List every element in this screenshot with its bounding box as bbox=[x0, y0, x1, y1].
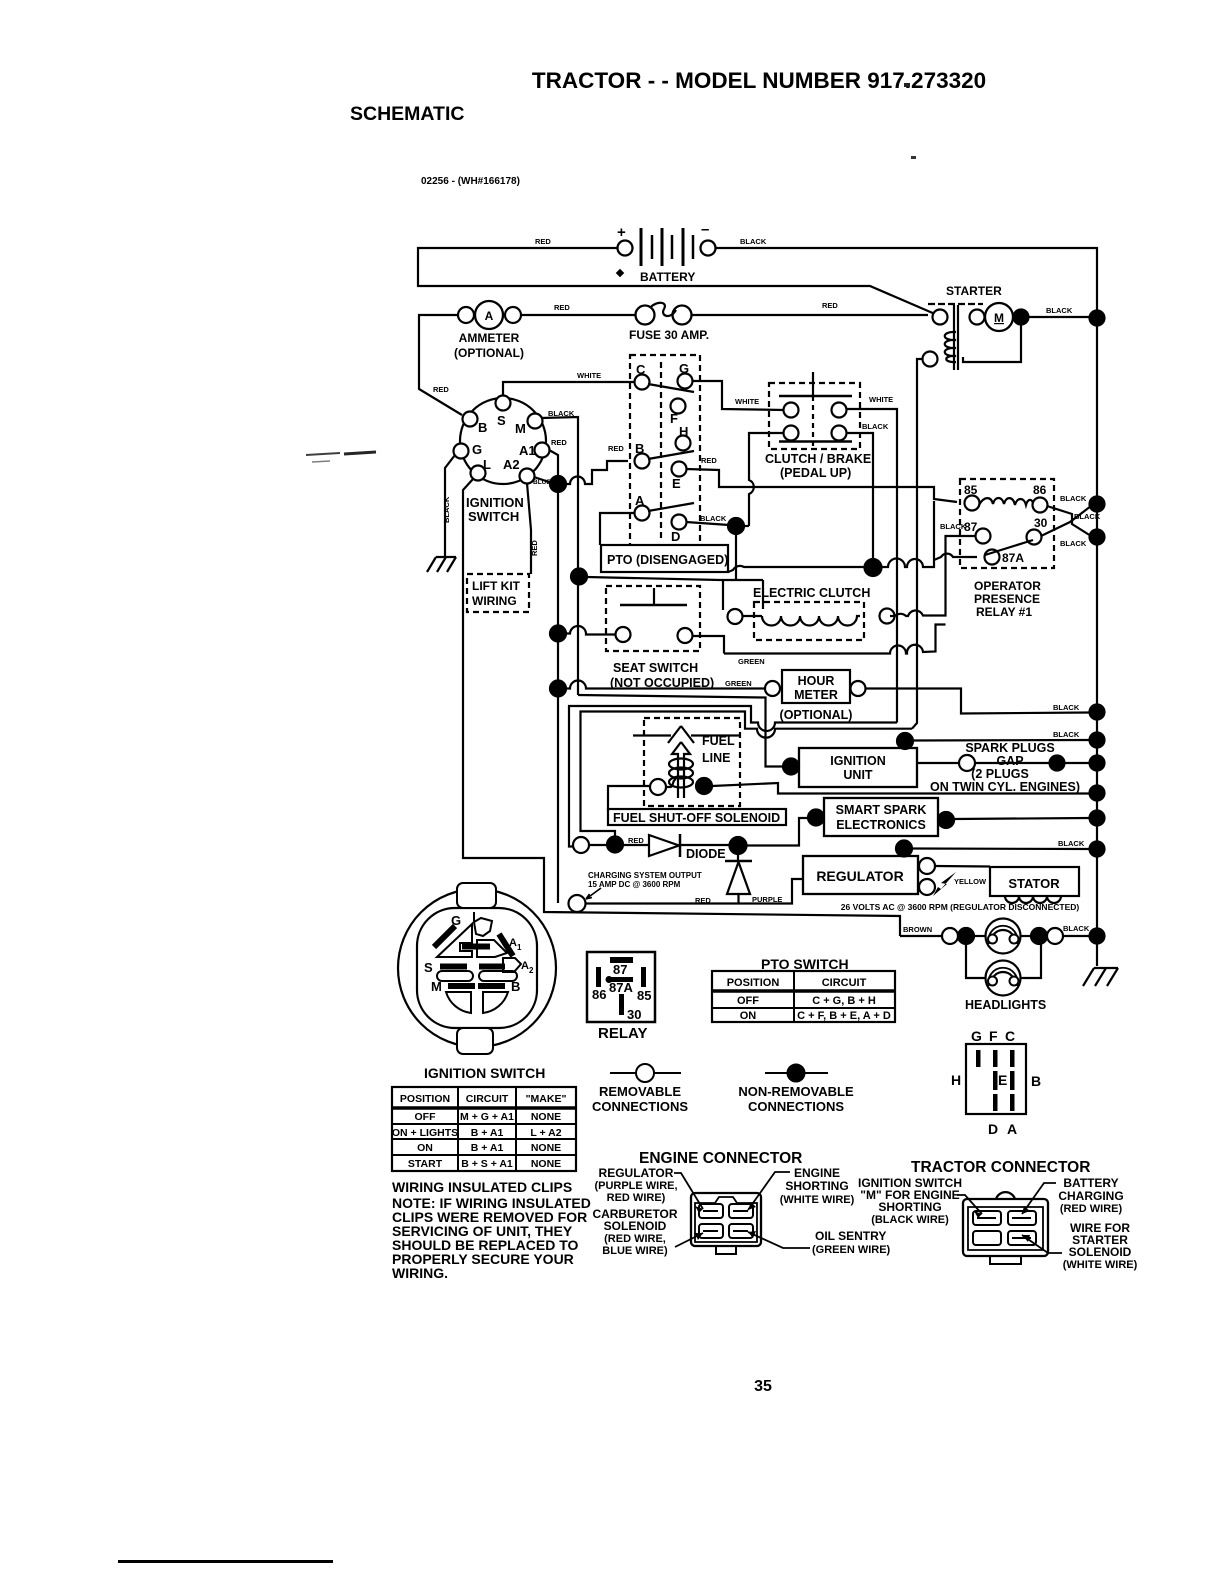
node hour meter junction bbox=[550, 681, 566, 697]
svg-text:RED: RED bbox=[551, 438, 567, 447]
wire kill circuit M to ignition unit bbox=[578, 695, 783, 767]
svg-text:YELLOW: YELLOW bbox=[954, 877, 987, 886]
svg-text:RELAY: RELAY bbox=[598, 1025, 647, 1042]
svg-text:(BLACK WIRE): (BLACK WIRE) bbox=[871, 1214, 949, 1226]
svg-text:SEAT SWITCH: SEAT SWITCH bbox=[613, 661, 698, 675]
wire ignition G to ground bbox=[445, 455, 455, 557]
svg-text:87A: 87A bbox=[1002, 551, 1024, 565]
svg-text:RED WIRE): RED WIRE) bbox=[607, 1192, 666, 1204]
wire ammeter left to ignition B (RED) bbox=[419, 315, 462, 415]
operator presence relay K1 bbox=[960, 479, 1054, 619]
tractor connector J2 bbox=[911, 1159, 1090, 1264]
svg-text:C: C bbox=[1005, 1028, 1015, 1044]
svg-text:NON-REMOVABLE: NON-REMOVABLE bbox=[738, 1084, 854, 1099]
fuel shut-off solenoid L2 bbox=[608, 778, 786, 825]
svg-text:CLUTCH / BRAKE: CLUTCH / BRAKE bbox=[765, 452, 871, 466]
svg-text:RED: RED bbox=[554, 303, 570, 312]
svg-text:BLACK: BLACK bbox=[1058, 839, 1085, 848]
wire BROWN to headlights bbox=[900, 925, 986, 944]
wire RED ignition A1 to junction bbox=[549, 438, 567, 478]
wire WHITE clutch TR to outer loop bbox=[846, 395, 897, 723]
svg-text:A1: A1 bbox=[519, 443, 536, 458]
svg-text:SHORTING: SHORTING bbox=[785, 1179, 848, 1193]
svg-text:WIRING INSULATED CLIPS: WIRING INSULATED CLIPS bbox=[392, 1179, 572, 1195]
svg-text:BLACK: BLACK bbox=[1053, 730, 1080, 739]
wire PTO E to relay 85 / junction (RED) bbox=[686, 456, 957, 502]
svg-text:A2: A2 bbox=[503, 457, 520, 472]
label ignition switch M shorting bbox=[858, 1176, 982, 1226]
svg-text:G: G bbox=[971, 1028, 982, 1044]
headlight E2 bbox=[965, 944, 1046, 1012]
wire headlight 1 to bus (BLACK) bbox=[1021, 924, 1091, 944]
svg-text:PRESENCE: PRESENCE bbox=[974, 592, 1040, 606]
svg-text:C + F, B + E, A + D: C + F, B + E, A + D bbox=[797, 1010, 891, 1022]
svg-text:IGNITION: IGNITION bbox=[830, 754, 886, 768]
svg-text:FUEL SHUT-OFF SOLENOID: FUEL SHUT-OFF SOLENOID bbox=[613, 811, 780, 825]
right bus BLACK vertical bbox=[1090, 311, 1105, 944]
svg-text:WHITE: WHITE bbox=[735, 397, 759, 406]
svg-text:30: 30 bbox=[627, 1007, 641, 1022]
svg-text:ELECTRIC CLUTCH: ELECTRIC CLUTCH bbox=[753, 586, 870, 600]
svg-text:15 AMP DC @ 3600 RPM: 15 AMP DC @ 3600 RPM bbox=[588, 880, 681, 889]
svg-text:BATTERY: BATTERY bbox=[640, 270, 695, 284]
wire PTO A around label box bbox=[600, 513, 635, 545]
svg-text:A: A bbox=[1007, 1121, 1017, 1137]
svg-text:B: B bbox=[635, 441, 644, 456]
svg-text:F: F bbox=[670, 411, 678, 426]
wire charging line (RED / PURPLE) bbox=[586, 879, 803, 905]
svg-text:M: M bbox=[994, 311, 1004, 325]
svg-text:RED: RED bbox=[695, 896, 711, 905]
label carburetor solenoid bbox=[592, 1207, 703, 1257]
ground (right bus) bbox=[1083, 936, 1118, 986]
fuel line box bbox=[633, 718, 740, 806]
svg-text:ENGINE CONNECTOR: ENGINE CONNECTOR bbox=[639, 1150, 802, 1167]
lift kit wiring box bbox=[467, 574, 529, 612]
legend non-removable connections bbox=[738, 1065, 854, 1115]
svg-text:(PEDAL UP): (PEDAL UP) bbox=[780, 466, 851, 480]
starter M1 with solenoid bbox=[923, 284, 1091, 370]
svg-text:RED: RED bbox=[530, 540, 539, 556]
wire PTO A continuation to relay (A-wire) bbox=[728, 566, 866, 572]
PTO label box bbox=[601, 545, 728, 572]
svg-text:SCHEMATIC: SCHEMATIC bbox=[350, 103, 464, 125]
headlight E1 bbox=[986, 919, 1021, 954]
TEXT_HEADERS bbox=[350, 68, 986, 1395]
svg-text:(NOT OCCUPIED): (NOT OCCUPIED) bbox=[610, 676, 714, 690]
svg-text:SMART SPARK: SMART SPARK bbox=[836, 803, 927, 817]
wire diode to smart spark bbox=[746, 818, 808, 846]
wire clutch BL down with hop (to PTO D junction) bbox=[749, 433, 784, 526]
svg-text:BLACK: BLACK bbox=[442, 496, 451, 523]
svg-text:ON: ON bbox=[417, 1142, 433, 1154]
ignition switch S1 bbox=[454, 396, 550, 525]
regulator U3 bbox=[803, 841, 935, 896]
svg-text:G: G bbox=[679, 361, 689, 376]
svg-text:FUSE 30 AMP.: FUSE 30 AMP. bbox=[629, 328, 709, 342]
svg-text:IGNITION SWITCH: IGNITION SWITCH bbox=[424, 1065, 545, 1081]
wire inner loop (starter solenoid to diode junction) bbox=[581, 712, 913, 838]
svg-text:D: D bbox=[671, 529, 680, 544]
svg-text:BLACK: BLACK bbox=[1063, 924, 1090, 933]
svg-text:METER: METER bbox=[794, 688, 838, 702]
engine connector J1 bbox=[639, 1150, 802, 1254]
node relay feed junction bbox=[865, 559, 882, 576]
svg-text:BLACK: BLACK bbox=[700, 514, 727, 523]
svg-text:AMMETER: AMMETER bbox=[459, 331, 520, 345]
BOTTOM_DIAGRAMS bbox=[392, 1150, 1138, 1281]
svg-text:PTO (DISENGAGED): PTO (DISENGAGED) bbox=[607, 553, 728, 567]
svg-text:E: E bbox=[998, 1072, 1007, 1088]
wire junction to electric clutch left bbox=[587, 577, 723, 580]
svg-text:REGULATOR: REGULATOR bbox=[816, 868, 903, 884]
wire junction to hour meter with hop (GREEN) bbox=[566, 679, 765, 689]
svg-text:CIRCUIT: CIRCUIT bbox=[822, 977, 867, 989]
wire ignition L to lights loop bbox=[463, 479, 900, 936]
node diode output bbox=[730, 837, 747, 854]
svg-text:CHARGING: CHARGING bbox=[1058, 1189, 1123, 1203]
svg-text:RED: RED bbox=[433, 385, 449, 394]
svg-text:BLACK: BLACK bbox=[940, 522, 967, 531]
svg-text:GREEN: GREEN bbox=[725, 679, 752, 688]
svg-text:2: 2 bbox=[529, 966, 534, 975]
label wire for starter solenoid bbox=[1022, 1221, 1138, 1271]
wire relay 30 to bus bbox=[1041, 506, 1101, 548]
svg-text:REGULATOR: REGULATOR bbox=[599, 1166, 674, 1180]
fuse F1 30 amp bbox=[521, 303, 709, 342]
wire fuel solenoid to spark plug line bbox=[712, 783, 1090, 794]
node junction dot 580,576 bbox=[571, 569, 587, 585]
svg-text:(RED WIRE,: (RED WIRE, bbox=[604, 1233, 666, 1245]
connector pinout GFC bbox=[951, 1028, 1041, 1137]
svg-text:DIODE: DIODE bbox=[686, 847, 726, 861]
ignition switch table bbox=[392, 1065, 576, 1171]
wire junction down to electric clutch area bbox=[723, 534, 763, 610]
svg-text:HOUR: HOUR bbox=[798, 674, 835, 688]
wire RED fuse to starter bbox=[691, 301, 928, 315]
svg-text:ENGINE: ENGINE bbox=[794, 1166, 840, 1180]
svg-text:OFF: OFF bbox=[415, 1111, 437, 1123]
svg-text:WHITE: WHITE bbox=[869, 395, 893, 404]
svg-text:BLUE WIRE): BLUE WIRE) bbox=[602, 1245, 668, 1257]
wire ignition A2 to lift kit (RED) bbox=[527, 483, 539, 574]
svg-text:30: 30 bbox=[1034, 516, 1048, 530]
spark plugs P1 bbox=[917, 741, 1090, 794]
wire outer loop (clutch white to diode feed) bbox=[569, 706, 897, 847]
svg-text:WIRING.: WIRING. bbox=[392, 1265, 448, 1281]
svg-text:BLACK: BLACK bbox=[1046, 306, 1073, 315]
svg-text:87A: 87A bbox=[609, 980, 633, 995]
svg-text:C + G, B + H: C + G, B + H bbox=[812, 995, 876, 1007]
svg-text:B + A1: B + A1 bbox=[471, 1142, 504, 1154]
svg-text:RED: RED bbox=[628, 836, 644, 845]
svg-text:C: C bbox=[636, 362, 646, 377]
wire middle vertical A1/A2 junction down bbox=[557, 492, 559, 903]
ARTIFACTS bbox=[118, 83, 916, 1563]
svg-text:M + G + A1: M + G + A1 bbox=[460, 1111, 514, 1123]
SCHEM4: component views bbox=[392, 883, 1041, 1171]
wire hour meter right to bus (BLACK) bbox=[865, 689, 1090, 714]
svg-text:POSITION: POSITION bbox=[727, 977, 780, 989]
MAIN_SCHEMATIC bbox=[418, 221, 1118, 986]
svg-text:BLACK: BLACK bbox=[1060, 539, 1087, 548]
note wiring insulated clips bbox=[392, 1179, 591, 1281]
wire RED battery positive loop bbox=[418, 237, 935, 314]
svg-text:BLACK: BLACK bbox=[740, 237, 767, 246]
label engine shorting bbox=[748, 1166, 855, 1210]
svg-text:CONNECTIONS: CONNECTIONS bbox=[592, 1099, 688, 1114]
svg-text:86: 86 bbox=[592, 987, 606, 1002]
svg-text:LINE: LINE bbox=[702, 751, 730, 765]
wire regulator top to bus (BLACK) bbox=[912, 839, 1090, 849]
svg-text:NONE: NONE bbox=[531, 1142, 561, 1154]
wire BLACK clutch BR down to relay junction bbox=[846, 422, 889, 560]
svg-text:IGNITION: IGNITION bbox=[466, 495, 524, 510]
svg-text:"MAKE": "MAKE" bbox=[526, 1093, 567, 1105]
svg-text:WHITE: WHITE bbox=[577, 371, 601, 380]
svg-text:(OPTIONAL): (OPTIONAL) bbox=[454, 346, 524, 360]
svg-text:85: 85 bbox=[637, 988, 651, 1003]
svg-text:TRACTOR - - MODEL NUMBER 917.2: TRACTOR - - MODEL NUMBER 917.273320 bbox=[532, 68, 986, 93]
svg-text:UNIT: UNIT bbox=[843, 768, 873, 782]
seat switch SW3 (not occupied) bbox=[606, 586, 714, 690]
svg-text:OIL SENTRY: OIL SENTRY bbox=[815, 1229, 886, 1243]
svg-text:A: A bbox=[521, 960, 529, 972]
relay K1 component view bbox=[587, 952, 655, 1042]
wire junction to PTO B (RED) bbox=[565, 444, 628, 484]
svg-text:GAP: GAP bbox=[996, 754, 1023, 768]
svg-text:PURPLE: PURPLE bbox=[752, 895, 782, 904]
svg-text:CIRCUIT: CIRCUIT bbox=[466, 1093, 509, 1105]
smart spark electronics U2 bbox=[808, 798, 954, 836]
svg-text:B: B bbox=[478, 420, 487, 435]
svg-text:REMOVABLE: REMOVABLE bbox=[599, 1084, 681, 1099]
svg-text:(2 PLUGS: (2 PLUGS bbox=[971, 767, 1029, 781]
svg-text:NONE: NONE bbox=[531, 1111, 561, 1123]
node A1/A2 junction bbox=[550, 476, 566, 492]
wire WHITE ignition S to PTO C bbox=[503, 371, 634, 396]
PTO switch SW1 (disengaged) bbox=[630, 355, 700, 547]
svg-text:SPARK PLUGS: SPARK PLUGS bbox=[965, 741, 1054, 755]
svg-text:POSITION: POSITION bbox=[400, 1093, 450, 1105]
svg-text:BLACK: BLACK bbox=[862, 422, 889, 431]
electric clutch L1 bbox=[728, 586, 895, 640]
svg-text:RED: RED bbox=[822, 301, 838, 310]
svg-text:(WHITE WIRE): (WHITE WIRE) bbox=[1063, 1259, 1138, 1271]
svg-text:GREEN: GREEN bbox=[738, 657, 765, 666]
svg-text:BROWN: BROWN bbox=[903, 925, 932, 934]
label battery charging bbox=[1022, 1176, 1124, 1215]
svg-text:E: E bbox=[672, 476, 681, 491]
svg-text:(WHITE WIRE): (WHITE WIRE) bbox=[780, 1194, 855, 1206]
svg-text:ON: ON bbox=[740, 1010, 757, 1022]
svg-text:L + A2: L + A2 bbox=[530, 1127, 561, 1139]
svg-text:CONNECTIONS: CONNECTIONS bbox=[748, 1099, 844, 1114]
wire junction to relay 85/87A with hops bbox=[881, 501, 977, 567]
ignition unit U1 bbox=[783, 733, 917, 787]
svg-text:S: S bbox=[497, 413, 506, 428]
svg-text:H: H bbox=[951, 1072, 961, 1088]
svg-text:HEADLIGHTS: HEADLIGHTS bbox=[965, 998, 1046, 1012]
svg-text:D: D bbox=[988, 1121, 998, 1137]
label oil sentry bbox=[748, 1229, 891, 1256]
hour meter M2 (optional) bbox=[765, 670, 866, 722]
clutch/brake switch SW2 (pedal up) bbox=[765, 372, 871, 480]
svg-text:START: START bbox=[408, 1158, 443, 1170]
svg-text:B: B bbox=[1031, 1073, 1041, 1089]
svg-text:02256 - (WH#166178): 02256 - (WH#166178) bbox=[421, 176, 520, 187]
svg-text:87: 87 bbox=[613, 962, 627, 977]
svg-text:A: A bbox=[485, 309, 494, 323]
svg-text:(OPTIONAL): (OPTIONAL) bbox=[780, 708, 853, 722]
charging system output circle bbox=[569, 871, 702, 912]
svg-text:BLACK: BLACK bbox=[1053, 703, 1080, 712]
wire PTO D to junction (BLACK) bbox=[686, 514, 749, 534]
svg-text:S: S bbox=[424, 960, 433, 975]
ignition switch connector view bbox=[398, 883, 556, 1054]
node seat switch junction bbox=[550, 626, 566, 642]
svg-text:M: M bbox=[515, 421, 526, 436]
svg-text:G: G bbox=[472, 442, 482, 457]
wire BLACK battery negative to right bus bbox=[716, 237, 1097, 313]
svg-text:PTO SWITCH: PTO SWITCH bbox=[761, 956, 849, 972]
wire seat switch right around (GREEN) bbox=[692, 625, 946, 667]
wire electric clutch right to relay 87 bbox=[890, 536, 976, 616]
svg-text:RED: RED bbox=[701, 456, 717, 465]
ARTIFACTS2 bbox=[306, 452, 376, 462]
svg-text:1: 1 bbox=[517, 943, 522, 952]
ammeter A1 (optional) bbox=[454, 301, 524, 360]
svg-text:B + S + A1: B + S + A1 bbox=[461, 1158, 513, 1170]
wire ignition unit top to bus (BLACK) bbox=[913, 730, 1090, 741]
svg-text:RELAY #1: RELAY #1 bbox=[976, 605, 1032, 619]
wire junction to seat switch with hop bbox=[566, 626, 616, 635]
stator G1 bbox=[990, 867, 1079, 903]
diode D2 (to charging line) bbox=[725, 852, 752, 904]
SCHEM2 bbox=[427, 355, 1101, 936]
legend removable connections bbox=[592, 1064, 688, 1114]
svg-text:F: F bbox=[989, 1028, 998, 1044]
svg-text:NONE: NONE bbox=[531, 1158, 561, 1170]
ground (left) bbox=[427, 557, 456, 572]
svg-text:SOLENOID: SOLENOID bbox=[1069, 1245, 1132, 1259]
wire BLACK ignition M down (kill circuit) bbox=[541, 409, 578, 695]
terminal bars bbox=[434, 926, 455, 947]
svg-text:SWITCH: SWITCH bbox=[468, 509, 519, 524]
svg-text:ON TWIN CYL. ENGINES): ON TWIN CYL. ENGINES) bbox=[930, 780, 1080, 794]
svg-text:B + A1: B + A1 bbox=[471, 1127, 504, 1139]
svg-text:LIFT KIT: LIFT KIT bbox=[472, 579, 521, 593]
wire relay 86 to bus bbox=[1047, 494, 1091, 536]
keyway outlines bbox=[437, 924, 472, 957]
svg-text:H: H bbox=[679, 424, 688, 439]
svg-text:(RED WIRE): (RED WIRE) bbox=[1060, 1203, 1123, 1215]
svg-text:RED: RED bbox=[535, 237, 551, 246]
svg-text:(GREEN WIRE): (GREEN WIRE) bbox=[812, 1244, 891, 1256]
svg-text:CHARGING SYSTEM OUTPUT: CHARGING SYSTEM OUTPUT bbox=[588, 871, 702, 880]
svg-text:BATTERY: BATTERY bbox=[1063, 1176, 1118, 1190]
svg-text:+: + bbox=[617, 224, 626, 241]
svg-text:WIRING: WIRING bbox=[472, 594, 517, 608]
svg-text:(PURPLE WIRE,: (PURPLE WIRE, bbox=[594, 1180, 677, 1192]
wire starter solenoid to inner loop bbox=[912, 359, 923, 729]
svg-text:OPERATOR: OPERATOR bbox=[974, 579, 1041, 593]
svg-text:ELECTRONICS: ELECTRONICS bbox=[836, 818, 926, 832]
label regulator wires bbox=[594, 1166, 703, 1213]
wire PTO G to clutch (WHITE) bbox=[692, 381, 784, 410]
svg-text:A: A bbox=[635, 493, 645, 508]
svg-text:SOLENOID: SOLENOID bbox=[604, 1219, 667, 1233]
svg-text:35: 35 bbox=[754, 1378, 772, 1395]
PTO switch table bbox=[712, 956, 895, 1022]
diode D1 bbox=[573, 834, 731, 861]
svg-text:SHORTING: SHORTING bbox=[878, 1200, 941, 1214]
svg-text:26 VOLTS AC @ 3600 RPM (REGULA: 26 VOLTS AC @ 3600 RPM (REGULATOR DISCON… bbox=[841, 902, 1080, 912]
svg-text:OFF: OFF bbox=[737, 995, 759, 1007]
svg-text:–: – bbox=[701, 221, 709, 238]
svg-text:STATOR: STATOR bbox=[1008, 876, 1060, 891]
SCHEM3 bbox=[550, 492, 1090, 1012]
wire regulator to stator (YELLOW) bbox=[933, 866, 990, 896]
svg-text:STARTER: STARTER bbox=[946, 284, 1002, 298]
wire ignition A2 to junction (BLUE) bbox=[533, 477, 558, 486]
wire smart spark right to bus bbox=[954, 818, 1090, 819]
svg-text:ON + LIGHTS: ON + LIGHTS bbox=[392, 1127, 458, 1139]
svg-text:BLACK: BLACK bbox=[1060, 494, 1087, 503]
svg-text:RED: RED bbox=[608, 444, 624, 453]
svg-text:TRACTOR CONNECTOR: TRACTOR CONNECTOR bbox=[911, 1159, 1090, 1176]
battery BT1 bbox=[616, 221, 716, 284]
svg-text:L: L bbox=[483, 457, 491, 472]
svg-text:86: 86 bbox=[1033, 483, 1047, 497]
